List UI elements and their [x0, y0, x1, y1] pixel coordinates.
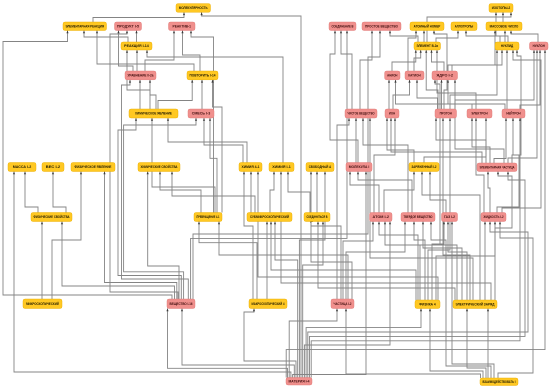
- wire ЭЛЕМЕНТ -&gt; АЛЛОТРОПЫ: [436, 31, 459, 43]
- svg-text:МОЛЕКУЛЯРНОСТЬ: МОЛЕКУЛЯРНОСТЬ: [179, 6, 208, 10]
- wire ВЕЩЕСТВО -&gt; СОЕДИНЕНИЕ: [191, 31, 349, 300]
- wire ФИЗИКА -&gt; ХИМИЯ4: [257, 172, 438, 301]
- wire ФИЗИКА -&gt; СУБМИКРО: [270, 222, 416, 301]
- node КАТИОН: [405, 71, 424, 80]
- node ХИМИЯ 4-1: [239, 163, 262, 172]
- wire НЕЙТРОН -&gt; НУКЛОН: [520, 50, 541, 109]
- wire ВЗД -&gt; ИНДИВИДЫ2: [498, 222, 533, 379]
- wire ЯДРО -&gt; НУКЛИД: [452, 50, 503, 71]
- wire ИОН -&gt; АНИОН: [388, 80, 390, 109]
- wire ЭЛ.ЧАСТИЦА -&gt; ИОН: [390, 118, 482, 163]
- node ХИМИЧЕСКОЕ ЯВЛЕНИЕ: [129, 109, 178, 118]
- node ЭЛЕКТРИЧЕСКИЙ ЗАРЯД: [453, 300, 497, 309]
- wire ЗАРЯЖЕННЫЙ -&gt; ЭЛЕКТРОН: [424, 118, 487, 163]
- wire ВЕЩЕСТВО -&gt; ХИМ.ЯВЛЕНИЕ: [118, 118, 181, 299]
- node ТВЕРДОЕ ВЕЩЕСТВО: [401, 213, 435, 222]
- wire ЭЛ.ЗАРЯД -&gt; ТВЕРДОЕ: [422, 222, 462, 301]
- svg-text:ИОН: ИОН: [389, 112, 396, 116]
- wire ЯДРО -&gt; МАССОВОЕ ЧИСЛО: [448, 31, 496, 72]
- svg-text:ПРОТОН: ПРОТОН: [440, 112, 453, 116]
- svg-text:ТВЕРДОЕ ВЕЩЕСТВО: ТВЕРДОЕ ВЕЩЕСТВО: [404, 215, 433, 219]
- svg-text:ФИЗИЧЕСКОЕ ЯВЛЕНИЕ: ФИЗИЧЕСКОЕ ЯВЛЕНИЕ: [75, 165, 113, 169]
- wire ЭЛЕМ.РЕАКЦИЯ -&gt; МОЛЕКУЛЯРНОСТЬ: [93, 12, 185, 22]
- node АТОМ I-2: [370, 213, 393, 222]
- wire ЭЛ.ЗАРЯД -&gt; СОЕДИНИТЬСЯ: [317, 222, 455, 301]
- wire МАТЕРИЯ -&gt; МАССА: [13, 172, 291, 378]
- wire МАТЕРИЯ -&gt; ИНДИВИДЫ: [308, 222, 528, 378]
- svg-text:ЭЛЕМЕНТ В-2а: ЭЛЕМЕНТ В-2а: [417, 44, 439, 48]
- node ГАЗ I-2: [442, 213, 458, 222]
- node ПОВТОРИТЬ I-14: [187, 71, 218, 80]
- wire ЭЛ.ЗАРЯД -&gt; ЭЛ.ЧАСТИЦА: [495, 172, 512, 301]
- node МОЛЕКУЛА I: [346, 163, 372, 172]
- wire ХИМИЯ4 -&gt; СМЕСЬ: [203, 118, 243, 163]
- wire КАТИОН -&gt; ЭЛЕМЕНТ: [414, 50, 422, 71]
- wire ПРЕВРАЩЕНИЕ -&gt; ХИМ.ЯВЛЕНИЕ: [151, 118, 215, 213]
- node МИКРОСКОПИЧЕСКИЙ: [23, 299, 62, 309]
- wire ЯДРО -&gt; ЭЛЕМЕНТ: [430, 50, 444, 71]
- svg-text:ИЗОТОПЫ-2: ИЗОТОПЫ-2: [492, 6, 511, 10]
- node НУКЛОН: [530, 42, 549, 50]
- wire МАТЕРИЯ -&gt; ВЕЩЕСТВО-2: [166, 309, 287, 378]
- node ПРОСТОЕ ВЕЩЕСТВО: [362, 22, 401, 31]
- svg-text:ЭЛЕМЕНТАРНАЯ ЧАСТИЦА: ЭЛЕМЕНТАРНАЯ ЧАСТИЦА: [480, 165, 515, 169]
- svg-text:ПРОСТОЕ ВЕЩЕСТВО: ПРОСТОЕ ВЕЩЕСТВО: [365, 24, 398, 28]
- svg-text:ВЗАИМОДЕЙСТВОВАТЬ I: ВЗАИМОДЕЙСТВОВАТЬ I: [483, 380, 516, 384]
- wire МАТЕРИЯ -&gt; ФИЗИКА: [306, 309, 422, 378]
- node ЧИСТОЕ ВЕЩЕСТВО: [345, 109, 377, 118]
- wire ЭЛЕКТРОН -&gt; ЭЛЕМЕНТ: [436, 50, 476, 109]
- wire ЭЛ.ЧАСТИЦА -&gt; НЕЙТРОН: [494, 118, 507, 163]
- node НЕЙТРОН: [502, 109, 525, 118]
- wire РЕАКЦИЯ -&gt; ПРОДУКТ: [135, 31, 137, 43]
- wire ПРОТОН -&gt; ЯДРО: [440, 80, 442, 109]
- svg-text:МОЛЕКУЛА I: МОЛЕКУЛА I: [349, 165, 370, 169]
- wire МАТЕРИЯ -&gt; АТОМ: [304, 222, 391, 378]
- svg-text:ХИМИЯ 4-1: ХИМИЯ 4-1: [242, 165, 260, 169]
- wire ЭЛ.ЗАРЯД -&gt; ЗАРЯЖЕННЫЙ: [421, 172, 480, 301]
- wire ВЗД -&gt; ЭЛ.ЗАРЯД: [466, 309, 486, 379]
- wire ИНДИВИДЫ -&gt; ЭЛЕКТРОН: [475, 118, 484, 213]
- wire ФИЗИКА -&gt; ИНДИВИДЫ: [436, 222, 496, 301]
- node СВОБОДНЫЙ А: [306, 163, 334, 172]
- wire ПРЕВРАЩЕНИЕ -&gt; РЕАКТИВ: [190, 31, 214, 213]
- svg-text:ЧИСТОЕ ВЕЩЕСТВО: ЧИСТОЕ ВЕЩЕСТВО: [348, 112, 375, 116]
- svg-text:МАССА I-2: МАССА I-2: [13, 165, 32, 169]
- wire СОЕДИНИТЬСЯ -&gt; ХИМИЯ1: [287, 172, 310, 213]
- svg-text:ВЕС I-2: ВЕС I-2: [46, 165, 61, 169]
- svg-text:ЖИДКОСТЬ I-2: ЖИДКОСТЬ I-2: [483, 215, 504, 219]
- wire ЭЛ.ЗАРЯД -&gt; ИНДИВИДЫ: [484, 222, 486, 301]
- wire ФИЗ.СВОЙСТВА -&gt; ВЕС: [52, 172, 66, 213]
- wire ПОВТОРИТЬ -&gt; РЕАКТИВ: [181, 31, 200, 72]
- wire СУБМИКРО -&gt; ХИМИЯ1: [270, 172, 275, 213]
- wire ВЗД -&gt; ТВЕРДОЕ: [430, 222, 491, 379]
- wire СОЕДИНИТЬСЯ -&gt; СВОБОДНЫЙ: [316, 172, 318, 213]
- wire ФИЗИКА -&gt; ЯДРО: [420, 80, 440, 300]
- wire СУБМИКРО -&gt; ХИМ.СВОЙСТВА: [171, 172, 255, 213]
- wire ФИЗИКА -&gt; ТВЕРДОЕ: [413, 222, 425, 301]
- svg-text:СОЕДИНИТЬСЯ В: СОЕДИНИТЬСЯ В: [307, 215, 328, 219]
- wire НУКЛОН -&gt; МАССОВОЕ ЧИСЛО: [510, 31, 538, 43]
- wire ПОВТОРИТЬ -&gt; ЭЛЕМ.РЕАКЦИЯ: [96, 31, 194, 72]
- svg-text:АЛЛОТРОПЫ: АЛЛОТРОПЫ: [455, 24, 473, 28]
- wire МАТЕРИЯ -&gt; СОЕДИНИТЬСЯ: [303, 222, 324, 378]
- wire ПРЕВРАЩЕНИЕ -&gt; ПОВТОРИТЬ: [211, 80, 222, 213]
- node ЯДРО I-2: [432, 71, 458, 80]
- wire ХИМИЯ4 -&gt; ХИМ.ЯВЛЕНИЕ: [167, 118, 247, 163]
- wire ЧИСТОЕ -&gt; ПРОСТОЕ: [360, 31, 373, 110]
- node ИЗОТОПЫ-2: [489, 4, 513, 13]
- wire АТОМ -&gt; ЗАРЯЖЕННЫЙ: [384, 172, 415, 213]
- wire МАТЕРИЯ -&gt; НУКЛОН-долгий: [286, 50, 546, 378]
- wire ЖИДКОСТЬ -&gt; НУКЛИД: [502, 50, 541, 213]
- wire НУКЛИД -&gt; МАССОВОЕ ЧИСЛО: [504, 31, 506, 43]
- wire ЭЛ.ЧАСТИЦА -&gt; ЯДРО: [454, 80, 504, 163]
- wire ЧАСТИЦА -&gt; АТОМ: [343, 222, 374, 300]
- wire ПРОТОН -&gt; АТОМНЫЙ НОМЕР: [433, 31, 447, 110]
- node СМЕСЬ I-3: [188, 109, 214, 118]
- node РЕАКЦИЯ I-14: [121, 42, 152, 50]
- svg-text:МАКРОСКОПИЧЕСКИЙ 4: МАКРОСКОПИЧЕСКИЙ 4: [252, 302, 285, 306]
- wire ЗАРЯЖЕННЫЙ -&gt; ИОН: [386, 118, 414, 163]
- svg-text:ЭЛЕМЕНТАРНАЯ РЕАКЦИЯ: ЭЛЕМЕНТАРНАЯ РЕАКЦИЯ: [66, 24, 105, 28]
- wire МАТЕРИЯ -&gt; МОЛЕКУЛА: [293, 172, 368, 378]
- wire НЕЙТРОН -&gt; ЯДРО: [447, 80, 505, 109]
- node СОЕДИНЕНИЕ В: [329, 22, 356, 31]
- wire МАТЕРИЯ -&gt; ВЕЩЕСТВО: [181, 309, 294, 378]
- svg-text:НУКЛОН: НУКЛОН: [533, 44, 546, 48]
- svg-text:АТОМНЫЙ НОМЕР: АТОМНЫЙ НОМЕР: [414, 24, 441, 28]
- svg-text:УРАВНЕНИЕ 0-2а: УРАВНЕНИЕ 0-2а: [128, 74, 154, 78]
- wire ПРОТОН -&gt; КАТИОН: [416, 80, 438, 109]
- wire ВЗД -&gt; ЧАСТИЦА: [345, 309, 481, 379]
- svg-text:ЭЛЕКТРИЧЕСКИЙ ЗАРЯД: ЭЛЕКТРИЧЕСКИЙ ЗАРЯД: [456, 302, 496, 306]
- wire ЭЛЕМЕНТ -&gt; ПРОСТОЕ: [389, 31, 418, 43]
- wire ЧАСТИЦА -&gt; ПРЕВРАЩЕНИЕ: [218, 222, 348, 300]
- wire ФИЗИКА -&gt; ПРОТОН: [428, 118, 451, 300]
- svg-text:АТОМ I-2: АТОМ I-2: [373, 215, 390, 219]
- wire МАТЕРИЯ -&gt; СВОБОДНЫЙ: [299, 172, 326, 378]
- svg-text:РЕАКЦИЯ I-14: РЕАКЦИЯ I-14: [124, 44, 149, 48]
- wire МАТЕРИЯ -&gt; СУБМИКРО: [274, 222, 298, 378]
- wire ВЗД -&gt; ФИЗИКА: [429, 309, 483, 379]
- wire ВЕЩЕСТВО -&gt; ХИМ.СВОЙСТВА: [147, 172, 179, 300]
- node ПРОДУКТ I-5: [115, 22, 142, 31]
- node ФИЗИЧЕСКОЕ ЯВЛЕНИЕ: [71, 163, 115, 172]
- node МАТЕРИЯ I-4: [286, 378, 312, 386]
- node ЭЛЕМЕНТАРНАЯ РЕАКЦИЯ: [63, 22, 107, 31]
- svg-text:ФИЗИЧЕСКИЕ СВОЙСТВА: ФИЗИЧЕСКИЕ СВОЙСТВА: [34, 215, 71, 219]
- wire ВЕЩЕСТВО -&gt; ПРОДУКТ: [110, 31, 178, 300]
- node АНИОН: [385, 71, 400, 80]
- node ЖИДКОСТЬ I-2: [481, 213, 506, 222]
- node РЕАКТИВ-1: [169, 22, 196, 31]
- wire ИНДИВИДЫ -&gt; НЕЙТРОН: [497, 118, 519, 213]
- node МАКРОСКОПИЧЕСКИЙ 4: [249, 299, 287, 309]
- svg-text:ХИМИЧЕСКИЕ СВОЙСТВА: ХИМИЧЕСКИЕ СВОЙСТВА: [141, 165, 179, 169]
- node УРАВНЕНИЕ 0-2а: [125, 71, 156, 80]
- wire УРАВНЕНИЕ -&gt; ПРОДУКТ: [117, 31, 133, 72]
- wire ЧАСТИЦА -&gt; ТВЕРДОЕ: [346, 222, 406, 300]
- wire ЭЛ.ЗАРЯД -&gt; ХИМИЯ1: [280, 172, 491, 301]
- wire ТВЕРДОЕ -&gt; ЧИСТОЕ: [362, 118, 408, 213]
- node ЭЛЕМЕНТАРНАЯ ЧАСТИЦА: [477, 163, 517, 172]
- svg-text:СОЕДИНЕНИЕ В: СОЕДИНЕНИЕ В: [332, 24, 355, 28]
- wire ЧАСТИЦА -&gt; ЧИСТОЕ: [337, 118, 350, 299]
- node МОЛЕКУЛЯРНОСТЬ: [176, 4, 211, 13]
- wire МОЛЕКУЛА -&gt; СОЕДИНЕНИЕ: [330, 31, 358, 163]
- svg-text:МАССОВОЕ ЧИСЛО: МАССОВОЕ ЧИСЛО: [490, 24, 519, 28]
- wire УРАВНЕНИЕ -&gt; РЕАКЦИЯ: [136, 50, 138, 71]
- svg-text:ЗАРЯЖЕННЫЙ I-2: ЗАРЯЖЕННЫЙ I-2: [412, 165, 437, 169]
- svg-text:ГАЗ I-2: ГАЗ I-2: [444, 215, 455, 219]
- svg-text:ФИЗИКА 4: ФИЗИКА 4: [419, 302, 436, 306]
- wire МИКРО -&gt; ФИЗ.ЯВЛЕНИЕ: [52, 172, 82, 300]
- wire КАТИОН -&gt; АТОМНЫЙ НОМЕР: [408, 31, 417, 72]
- wire НУКЛИД -&gt; ИЗОТОПЫ: [495, 12, 508, 42]
- svg-text:НЕЙТРОН: НЕЙТРОН: [506, 112, 521, 116]
- wire УРАВНЕНИЕ -&gt; РЕАКТИВ: [145, 31, 175, 72]
- wire МАТЕРИЯ -&gt; ЭЛ.ЧАСТИЦА: [310, 172, 526, 378]
- node ХИМИЯ I-1: [269, 163, 294, 172]
- wire ХИМИЯ1 -&gt; РЕАКЦИЯ: [146, 50, 283, 163]
- wire ХИМ.ЯВЛЕНИЕ -&gt; РЕАКЦИЯ: [126, 50, 150, 109]
- wire ЭЛЕМЕНТ -&gt; ИЗОТОПЫ: [427, 12, 512, 42]
- wire АТОМ -&gt; МОЛЕКУЛА: [349, 172, 379, 213]
- wire ФИЗИКА -&gt; ТИП: [432, 222, 445, 301]
- wire ПРОТОН -&gt; НУКЛИД: [450, 50, 498, 109]
- wire ЭЛ.ЗАРЯД -&gt; ЧИСТОЕ: [369, 118, 473, 300]
- node ЭЛЕМЕНТ В-2а: [414, 42, 441, 50]
- node МАССА I-2: [8, 163, 36, 172]
- wire ТИП -&gt; ЗАРЯЖЕННЫЙ: [429, 172, 446, 213]
- wire МАКРО -&gt; ХИМИЯ4: [243, 172, 253, 300]
- node ФИЗИКА 4: [415, 300, 440, 309]
- wire СМЕСЬ -&gt; УРАВНЕНИЕ: [149, 80, 156, 109]
- svg-text:РЕАКТИВ-1: РЕАКТИВ-1: [173, 24, 192, 28]
- wire ВЕЩЕСТВО -&gt; УРАВНЕНИЕ: [122, 80, 189, 299]
- svg-text:МИКРОСКОПИЧЕСКИЙ: МИКРОСКОПИЧЕСКИЙ: [26, 302, 59, 306]
- node ПРЕВРАЩЕНИЕ 4-1: [194, 213, 222, 222]
- svg-text:АНИОН: АНИОН: [387, 74, 398, 78]
- svg-text:ПРЕВРАЩЕНИЕ 4-1: ПРЕВРАЩЕНИЕ 4-1: [197, 215, 220, 219]
- wire ТВЕРДОЕ -&gt; МОЛЕКУЛА: [357, 172, 412, 213]
- svg-text:КАТИОН: КАТИОН: [408, 74, 421, 78]
- wire ХИМ.ЯВЛЕНИЕ -&gt; УРАВНЕНИЕ: [139, 80, 141, 109]
- svg-text:ПРОДУКТ I-5: ПРОДУКТ I-5: [117, 24, 139, 28]
- wire ЭЛ.ЧАСТИЦА -&gt; ПРОТОН: [435, 118, 486, 163]
- wire ИОН -&gt; КАТИОН: [393, 80, 411, 109]
- wire АНИОН -&gt; ЭЛЕМЕНТ: [392, 50, 417, 71]
- wire ЭЛЕКТРОН -&gt; АНИОН: [394, 80, 472, 109]
- node ФИЗИЧЕСКИЕ СВОЙСТВА: [31, 213, 72, 222]
- wire ЭЛ.ЗАРЯД -&gt; АТОМ: [384, 222, 457, 301]
- svg-text:ПОВТОРИТЬ I-14: ПОВТОРИТЬ I-14: [190, 74, 216, 78]
- wire ПРЕВРАЩЕНИЕ -&gt; СМЕСЬ: [209, 118, 217, 213]
- wire МАТЕРИЯ -&gt; ЧАСТИЦА: [289, 309, 338, 378]
- wire ФИЗ.СВОЙСТВА -&gt; МАССА: [24, 172, 38, 213]
- svg-text:МАТЕРИЯ I-4: МАТЕРИЯ I-4: [289, 379, 310, 383]
- node МАССОВОЕ ЧИСЛО: [486, 22, 522, 31]
- svg-text:ВЕЩЕСТВО I-16: ВЕЩЕСТВО I-16: [170, 302, 193, 306]
- node ХИМИЧЕСКИЕ СВОЙСТВА: [138, 163, 180, 172]
- node ВЕЩЕСТВО I-16: [167, 299, 195, 309]
- node ВЗАИМОДЕЙСТВОВАТЬ I: [480, 378, 518, 386]
- wire НУКЛИД -&gt; АЛЛОТРОПЫ: [465, 31, 500, 43]
- node ЗАРЯЖЕННЫЙ I-2: [409, 163, 439, 172]
- node ВЕС I-2: [42, 163, 64, 172]
- svg-text:СВОБОДНЫЙ А: СВОБОДНЫЙ А: [309, 165, 332, 169]
- wire ЭЛ.ЗАРЯД -&gt; ТИП: [447, 222, 467, 301]
- wire ПРОТОН -&gt; НУКЛОН: [455, 50, 535, 109]
- wire ЭЛ.ЗАРЯД -&gt; ПРОТОН: [442, 118, 470, 300]
- wire ВЗД -&gt; ТИП: [451, 222, 494, 379]
- node ЧАСТИЦА I-2: [331, 299, 354, 309]
- svg-text:СУБМИКРОСКОПИЧЕСКИЙ: СУБМИКРОСКОПИЧЕСКИЙ: [250, 215, 290, 219]
- node АЛЛОТРОПЫ: [451, 22, 477, 31]
- wire МИКРО -&gt; ФИЗ.СВОЙСТВА: [41, 222, 43, 300]
- wire ПРЕВРАЩЕНИЕ -&gt; ХИМ.СВОЙСТВА: [159, 172, 201, 213]
- wire ЭЛ.ЧАСТИЦА -&gt; НУКЛИД: [512, 50, 521, 163]
- wire ЧАСТИЦА -&gt; СОЕДИНИТЬСЯ: [310, 220, 352, 299]
- wire ВЕЩЕСТВО -&gt; СМЕСЬ: [124, 118, 198, 299]
- node АТОМНЫЙ НОМЕР: [410, 22, 444, 31]
- wire АТОМ -&gt; ИОН: [374, 118, 396, 213]
- wire НЕЙТРОН -&gt; НУКЛИД: [506, 50, 508, 109]
- wire МАССОВОЕ ЧИСЛО -&gt; ИЗОТОПЫ: [502, 12, 504, 22]
- wire ФИЗИКА -&gt; АТОМ: [378, 222, 418, 301]
- wire МОЛЕКУЛА -&gt; ЧИСТОЕ: [355, 118, 357, 163]
- wire ЭЛ.ЧАСТИЦА -&gt; НУКЛОН: [508, 50, 538, 163]
- node ЭЛЕКТРОН: [467, 109, 492, 118]
- wire МАТЕРИЯ -&gt; МАКРО: [244, 309, 296, 378]
- wire СУБМИКРО -&gt; ХИМИЯ4: [250, 172, 252, 213]
- svg-text:НУКЛИД: НУКЛИД: [501, 44, 514, 48]
- wire РЕАКЦИЯ -&gt; ЭЛЕМ.РЕАКЦИЯ: [83, 31, 128, 43]
- svg-text:ЭЛЕКТРОН: ЭЛЕКТРОН: [471, 112, 488, 116]
- svg-text:ЯДРО I-2: ЯДРО I-2: [437, 74, 454, 78]
- wire МАТЕРИЯ -&gt; МОЛЕКУЛЯРНОСТЬ: [201, 12, 302, 377]
- wire ВЕЩЕСТВО -&gt; ФИЗ.ЯВЛЕНИЕ: [103, 172, 176, 300]
- svg-text:ХИМИЧЕСКОЕ ЯВЛЕНИЕ: ХИМИЧЕСКОЕ ЯВЛЕНИЕ: [135, 112, 173, 116]
- svg-text:СМЕСЬ I-3: СМЕСЬ I-3: [192, 112, 211, 116]
- wire ЧИСТОЕ ВЕЩЕСТВО -&gt; СОЕДИНЕНИЕ: [340, 31, 352, 110]
- node СУБМИКРОСКОПИЧЕСКИЙ: [247, 213, 292, 222]
- wire ВЕЩЕСТВО -&gt; ПРОСТОЕ ВЕЩЕСТВО: [193, 31, 381, 300]
- wire ВЗД -&gt; ЭЛ.ЗАРЯД2: [487, 309, 489, 379]
- node ПРОТОН: [435, 109, 457, 118]
- wire ХИМ.ЯВЛЕНИЕ -&gt; ПОВТОРИТЬ: [158, 80, 193, 109]
- wire ЭЛ.ЧАСТИЦА -&gt; ЭЛЕКТРОН: [471, 118, 490, 163]
- wire ПРОТОН -&gt; ЭЛЕМЕНТ: [425, 50, 438, 109]
- svg-text:ХИМИЯ I-1: ХИМИЯ I-1: [272, 165, 291, 169]
- wire МАКРО -&gt; СУБМИКРО: [266, 222, 268, 300]
- wire МАКРО -&gt; ПРЕВРАЩЕНИЕ: [198, 222, 257, 300]
- node ИОН: [385, 109, 399, 118]
- wire ИНДИВИДЫ -&gt; ЭЛ.ЧАСТИЦА: [487, 172, 490, 213]
- svg-text:ЧАСТИЦА I-2: ЧАСТИЦА I-2: [334, 302, 352, 306]
- node СОЕДИНИТЬСЯ В: [304, 213, 330, 222]
- wire ВЕЩЕСТВО -&gt; ФИЗ.СВОЙСТВА: [61, 222, 175, 300]
- wire ВЕЩЕСТВО -&gt; ЭЛЕМ.РЕАКЦИЯ: [3, 31, 172, 300]
- wire ЭЛЕМЕНТ -&gt; АТОМНЫЙ НОМЕР: [423, 31, 425, 43]
- wire ЧАСТИЦА -&gt; СВОБОДНЫЙ: [310, 172, 341, 300]
- wire СМЕСЬ -&gt; ПОВТОРИТЬ: [201, 80, 203, 109]
- wire МАТЕРИЯ -&gt; НЕЙТРОН: [311, 118, 521, 378]
- node НУКЛИД: [495, 42, 519, 50]
